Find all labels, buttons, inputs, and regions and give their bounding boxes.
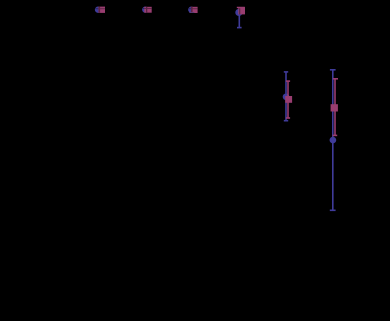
blue series point 5 marker bbox=[283, 93, 290, 100]
blue series point 1 marker bbox=[95, 7, 101, 13]
point 4 hidden stem band (dark) bbox=[239, 8, 240, 14]
blue series point 6 errorbar bbox=[330, 70, 336, 211]
pink series point 6 errorbar bbox=[333, 79, 338, 136]
point 1 hidden errorbar cap band (dark) bbox=[95, 7, 105, 13]
pink series point 6 marker bbox=[331, 104, 338, 111]
pink series point 5 marker bbox=[285, 96, 292, 103]
point 3 hidden errorbar cap band (dark) bbox=[188, 7, 197, 13]
pink series point 1 marker bbox=[98, 7, 105, 13]
blue series point 6 marker bbox=[330, 137, 337, 144]
point 2 hidden errorbar cap band (dark) bbox=[142, 7, 152, 13]
blue series point 2 marker bbox=[142, 6, 148, 12]
blue series point 4 marker bbox=[235, 9, 242, 16]
pink series point 5 errorbar bbox=[286, 81, 290, 118]
blue series point 5 errorbar bbox=[284, 72, 288, 121]
blue series point 3 marker bbox=[188, 7, 194, 13]
pink series point 2 marker bbox=[144, 7, 151, 13]
pink series point 3 marker bbox=[191, 7, 198, 13]
pink series point 4 marker bbox=[238, 7, 245, 14]
blue series point 4 errorbar bbox=[237, 12, 242, 27]
pink series point 4 errorbar top cap bbox=[237, 7, 245, 8]
